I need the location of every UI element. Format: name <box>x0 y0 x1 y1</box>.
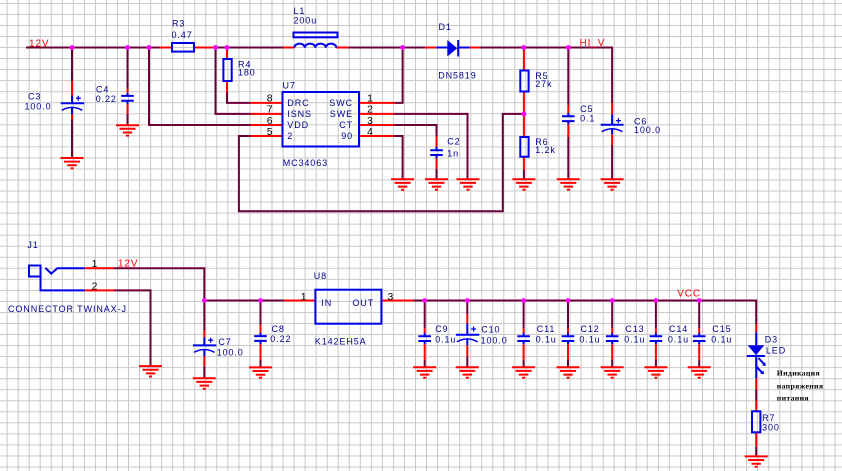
capacitor C10 (polarized) <box>456 324 479 346</box>
ground at R6 <box>512 179 535 189</box>
junction node C10/VCC rail <box>465 298 470 303</box>
svg-text:U7: U7 <box>283 81 296 91</box>
svg-text:6: 6 <box>267 116 274 127</box>
capacitor C5 <box>562 113 575 124</box>
capacitor C9 <box>418 333 431 344</box>
wire C2 to ground <box>436 169 438 180</box>
wire 12V rail left <box>26 47 160 49</box>
svg-text:C13: C13 <box>625 324 644 334</box>
svg-text:CONNECTOR TWINAX-J: CONNECTOR TWINAX-J <box>8 304 127 314</box>
junction node R5/R6 divider <box>522 112 527 117</box>
capacitor C11 <box>517 333 530 344</box>
svg-text:0.1u: 0.1u <box>435 335 456 345</box>
wire C15 drop <box>698 301 700 329</box>
svg-text:4: 4 <box>367 127 374 138</box>
svg-text:0.1u: 0.1u <box>624 335 645 345</box>
wire R7 to ground <box>755 447 757 457</box>
svg-text:C7: C7 <box>218 337 231 347</box>
capacitor C8 leads <box>260 325 262 360</box>
wire U8 out rail to D3 <box>414 301 757 325</box>
wire C5 to ground <box>567 137 569 179</box>
U7 pin 6 lead <box>251 124 283 126</box>
junction node ISNS drop/rail <box>213 45 218 50</box>
svg-text:напряжения: напряжения <box>777 381 824 390</box>
svg-text:8: 8 <box>267 94 274 105</box>
wire C12 to ground <box>567 360 569 368</box>
wire D3 to R7 <box>755 390 757 401</box>
svg-text:J1: J1 <box>27 240 38 250</box>
ground at C8 <box>249 367 272 377</box>
wire R6 to ground <box>523 170 525 179</box>
ground at C10 <box>456 367 479 377</box>
ground at C13 <box>601 367 624 377</box>
svg-text:U8: U8 <box>314 271 327 281</box>
svg-text:3: 3 <box>388 292 395 303</box>
capacitor C5 leads <box>567 105 569 137</box>
resistor R5 <box>520 71 528 92</box>
wire L1 to D1 <box>349 47 427 49</box>
svg-text:C11: C11 <box>537 324 556 334</box>
junction node D1 anode/SWC <box>400 45 405 50</box>
svg-text:CT: CT <box>339 120 353 130</box>
wire C10 drop <box>466 301 468 315</box>
wire C13 to ground <box>611 360 613 368</box>
junction node C7/lower rail <box>202 298 207 303</box>
ground at C6 <box>601 179 624 189</box>
U7 pin 8 lead <box>251 102 283 104</box>
IC U7 box <box>283 92 360 147</box>
svg-text:1: 1 <box>92 259 99 270</box>
wire pin2 SWE to ground <box>394 114 468 179</box>
svg-text:C10: C10 <box>481 324 500 334</box>
svg-text:2: 2 <box>287 131 293 141</box>
wire pin3 CT to C2 <box>394 125 437 136</box>
ground at C15 <box>688 367 711 377</box>
capacitor C10 leads <box>466 314 468 356</box>
U7 pin 4 lead <box>359 135 394 137</box>
capacitor C6 (polarized) <box>601 114 624 134</box>
capacitor C11 leads <box>523 328 525 359</box>
LED D3 <box>747 332 766 378</box>
connector J1 <box>29 266 85 291</box>
svg-text:R3: R3 <box>172 19 185 29</box>
ground at C5 <box>557 179 580 189</box>
wire pin5 feedback to R5/R6 node <box>239 114 524 211</box>
resistor R3 lead left <box>160 47 173 49</box>
resistor R3 lead right <box>194 47 216 49</box>
junction node VDD drop/rail <box>147 45 152 50</box>
svg-text:0.1u: 0.1u <box>579 335 600 345</box>
wire C8 drop <box>260 301 262 326</box>
junction node C13/VCC rail <box>610 298 615 303</box>
svg-text:ISNS: ISNS <box>287 109 312 119</box>
ground at C9 <box>413 367 436 377</box>
svg-text:5: 5 <box>267 127 274 138</box>
svg-text:0.22: 0.22 <box>270 334 291 344</box>
junction node R5/rail <box>521 45 526 50</box>
IC U8 box <box>315 290 381 324</box>
resistor R7 <box>752 411 760 432</box>
svg-text:VCC: VCC <box>677 289 701 300</box>
capacitor C12 leads <box>567 328 569 359</box>
junction node C14/VCC rail <box>654 298 659 303</box>
svg-text:L1: L1 <box>294 6 306 16</box>
capacitor C7 (polarized) <box>193 338 216 357</box>
svg-text:0.22: 0.22 <box>96 94 117 104</box>
svg-text:IN: IN <box>321 298 332 308</box>
junction node C4/rail <box>125 45 130 50</box>
svg-text:C2: C2 <box>447 137 460 147</box>
svg-text:SWE: SWE <box>330 109 353 119</box>
U7 pin 7 lead <box>251 113 283 115</box>
capacitor C14 leads <box>655 328 657 359</box>
capacitor C9 leads <box>424 328 426 359</box>
wire C7 drop <box>203 301 205 331</box>
wire C3 top drop <box>71 48 73 82</box>
svg-text:C4: C4 <box>96 85 109 95</box>
wire C8 to ground <box>260 360 262 367</box>
svg-text:HI_V: HI_V <box>580 38 606 49</box>
wire C9 to ground <box>424 360 426 368</box>
connector J1 pin leads <box>85 268 114 290</box>
capacitor C4 <box>121 93 134 104</box>
svg-text:1: 1 <box>367 94 374 105</box>
svg-text:D3: D3 <box>765 335 778 345</box>
svg-text:DN5819: DN5819 <box>438 71 476 81</box>
wire C4 to ground <box>127 114 129 125</box>
junction node C15/VCC rail <box>697 298 702 303</box>
wire C14 to ground <box>655 360 657 368</box>
wire C14 drop <box>655 301 657 329</box>
svg-text:1.2k: 1.2k <box>535 145 556 155</box>
U7 pin 3 lead <box>359 124 394 126</box>
svg-text:100.0: 100.0 <box>481 335 508 345</box>
resistor R3 <box>172 43 194 52</box>
svg-text:C14: C14 <box>669 324 688 334</box>
svg-text:100.0: 100.0 <box>217 348 244 358</box>
capacitor C15 leads <box>698 328 700 359</box>
wire C6 to ground <box>611 145 613 179</box>
ground at C12 <box>557 367 580 377</box>
svg-text:VDD: VDD <box>287 120 309 130</box>
LED D3 / resistor R7 leads <box>755 324 757 447</box>
U8 pin leads <box>284 300 414 302</box>
svg-text:питания: питания <box>777 394 810 403</box>
svg-text:1n: 1n <box>447 148 459 158</box>
svg-text:Индикация: Индикация <box>777 369 821 378</box>
svg-text:3: 3 <box>367 116 374 127</box>
junction node C8/lower rail <box>258 298 263 303</box>
ground at J1 pin2 <box>139 366 162 376</box>
svg-text:7: 7 <box>267 105 274 116</box>
U7 pin 5 lead <box>251 135 283 137</box>
svg-text:MC34063: MC34063 <box>283 158 328 168</box>
svg-text:DRC: DRC <box>287 98 309 108</box>
wire J1 pin1 to lower rail <box>114 268 204 300</box>
capacitor C6 leads <box>611 103 613 145</box>
ground at C2 <box>425 179 448 189</box>
svg-text:C9: C9 <box>435 324 448 334</box>
capacitor C3 leads <box>71 81 73 120</box>
wire lower rail to U8 <box>204 300 284 302</box>
ground at C14 <box>644 367 667 377</box>
junction node C3/rail <box>70 45 75 50</box>
resistor R4 <box>223 59 231 81</box>
wire D1 to HI_V rail end, down to C6 <box>480 48 612 104</box>
capacitor C4 leads <box>127 89 129 114</box>
svg-text:200u: 200u <box>294 16 318 26</box>
svg-text:LED: LED <box>766 346 786 356</box>
inductor L1 windings <box>294 44 336 48</box>
wire J1 pin2 to ground <box>114 290 151 366</box>
wire C4 top drop <box>127 48 129 89</box>
capacitor C13 <box>606 333 619 344</box>
svg-text:0.1u: 0.1u <box>536 335 557 345</box>
U7 pin 1 lead <box>359 102 395 104</box>
wire C10 to ground <box>466 356 468 367</box>
capacitor C15 <box>693 333 706 344</box>
wire rail to C5 <box>567 48 569 106</box>
U7 pin 2 lead <box>359 113 394 115</box>
junction node C9/VCC rail <box>422 298 427 303</box>
svg-text:C8: C8 <box>272 324 285 334</box>
svg-text:C12: C12 <box>581 324 600 334</box>
capacitor C14 <box>650 333 663 344</box>
svg-text:12V: 12V <box>118 258 138 269</box>
svg-text:D1: D1 <box>439 22 452 32</box>
junction node R4/rail <box>225 45 230 50</box>
capacitor C2 leads <box>436 136 438 168</box>
svg-text:100.0: 100.0 <box>25 102 52 112</box>
svg-text:100.0: 100.0 <box>634 125 661 135</box>
svg-text:0.47: 0.47 <box>172 30 193 40</box>
svg-text:27k: 27k <box>535 79 552 89</box>
svg-text:1: 1 <box>301 292 308 303</box>
wire C12 drop <box>567 301 569 329</box>
resistor R5 leads <box>523 48 525 115</box>
capacitor C7 leads <box>203 330 205 366</box>
junction node C12/VCC rail <box>566 298 571 303</box>
capacitor C2 <box>430 147 443 158</box>
svg-text:12V: 12V <box>29 39 50 50</box>
ground at U7 pin4 <box>391 179 414 189</box>
ground at C4 <box>116 125 139 135</box>
ground at U7 pin2 <box>457 179 480 189</box>
wire C13 drop <box>611 301 613 329</box>
wire C15 to ground <box>698 360 700 368</box>
svg-text:SWC: SWC <box>329 98 353 108</box>
wire C9 drop <box>424 301 426 329</box>
wire rail to ISNS pin7 <box>216 48 251 114</box>
resistor R6 leads <box>523 114 525 170</box>
svg-text:K142EH5A: K142EH5A <box>315 337 367 347</box>
svg-text:C3: C3 <box>28 91 41 101</box>
svg-text:300: 300 <box>762 423 780 433</box>
resistor R6 <box>520 137 528 157</box>
inductor L1 leads <box>283 47 349 49</box>
inductor L1 core bar <box>294 33 338 38</box>
wire R4 bottom to DRC pin8 <box>227 92 251 103</box>
svg-text:90: 90 <box>341 131 353 141</box>
svg-text:0.1u: 0.1u <box>711 335 732 345</box>
svg-text:0.1u: 0.1u <box>668 335 689 345</box>
wire 12V rail mid <box>216 47 284 49</box>
svg-text:2: 2 <box>92 282 99 293</box>
svg-text:2: 2 <box>367 105 374 116</box>
wire C11 to ground <box>523 360 525 368</box>
diode D1 <box>436 40 469 57</box>
wire rail to VDD pin6 <box>149 48 251 126</box>
wire C7 to ground <box>203 366 205 378</box>
junction node C11/VCC rail <box>521 298 526 303</box>
svg-text:180: 180 <box>238 68 256 78</box>
capacitor C8 <box>254 333 267 344</box>
ground at C11 <box>512 367 535 377</box>
ground at C3 <box>61 158 84 168</box>
capacitor C13 leads <box>611 328 613 359</box>
capacitor C3 (polarized) <box>61 96 84 115</box>
svg-text:OUT: OUT <box>352 298 374 308</box>
wire C3 to ground <box>71 120 73 159</box>
capacitor C12 <box>562 333 575 344</box>
diode D1 leads <box>425 47 480 49</box>
junction node C5/rail <box>566 45 571 50</box>
svg-text:R7: R7 <box>762 413 775 423</box>
resistor R4 leads <box>226 48 228 93</box>
svg-text:0.1: 0.1 <box>580 114 595 124</box>
wire pin1 SWC up to rail <box>395 48 403 103</box>
wire C11 drop <box>523 301 525 329</box>
ground at R7 <box>745 456 768 466</box>
svg-text:C15: C15 <box>712 324 731 334</box>
wire pin4 to ground <box>394 136 403 179</box>
ground at C7 <box>193 378 216 388</box>
